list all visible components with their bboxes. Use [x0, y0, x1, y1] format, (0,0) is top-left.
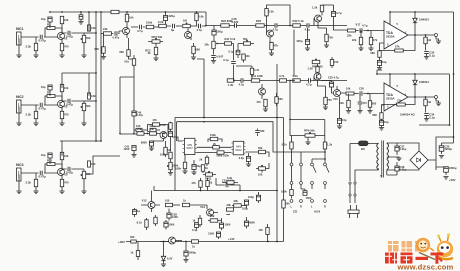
capacitor C71 1500: [303, 191, 307, 196]
svg-text:680: 680: [372, 102, 377, 106]
wire mains left: [350, 144, 378, 182]
svg-text:1.2k: 1.2k: [312, 6, 318, 10]
capacitor C6 10u: [48, 85, 52, 90]
ground input jack: [16, 123, 21, 126]
svg-text:10μ: 10μ: [161, 131, 166, 135]
ground R6: [33, 123, 38, 126]
svg-text:T: T: [380, 175, 382, 179]
ground C47: [191, 172, 196, 175]
transistor V13: [207, 209, 214, 216]
ground R25: [269, 53, 274, 56]
resistor R53 47k: [369, 37, 372, 44]
svg-text:12k: 12k: [91, 26, 96, 30]
resistor R9: [88, 93, 91, 99]
svg-text:16k: 16k: [285, 202, 290, 206]
svg-text:12k: 12k: [91, 94, 96, 98]
transistor V3: [58, 169, 65, 176]
svg-text:MIC1: MIC1: [16, 27, 24, 31]
resistor R55 1: [424, 37, 427, 44]
ground R11: [33, 191, 38, 194]
resistor R8 12k: [60, 84, 63, 91]
svg-text:50k: 50k: [86, 104, 91, 108]
capacitor C13 0.47u: [115, 31, 118, 36]
svg-text:0.047: 0.047: [216, 55, 223, 59]
capacitor C21 220u: [305, 40, 309, 45]
capacitor C30 4.7u: [360, 91, 363, 96]
resistor R43 5.1k: [293, 79, 301, 82]
svg-text:5.6k: 5.6k: [198, 15, 204, 19]
resistor R15b mix: [104, 32, 112, 35]
svg-text:22k: 22k: [347, 34, 352, 38]
svg-text:10μ: 10μ: [196, 164, 201, 168]
ground C34: [424, 119, 429, 122]
ground R52: [358, 48, 363, 51]
svg-text:10k: 10k: [129, 16, 134, 20]
input terminals AUX L/R: [311, 200, 314, 203]
wire mains right: [355, 168, 379, 181]
svg-text:R23: R23: [256, 19, 262, 23]
wire chain2 to switch: [290, 81, 292, 136]
capacitor C34 0.1u: [424, 113, 429, 116]
resistor R80 1k: [206, 181, 209, 187]
svg-text:680: 680: [372, 113, 377, 117]
resistor R51 51k: [132, 59, 135, 66]
potentiometer RP12 100k: [169, 162, 172, 169]
resistor R45 1.2k: [316, 67, 319, 73]
junction chain2: [289, 80, 291, 82]
ground R4: [59, 55, 64, 58]
capacitor C53 0.47u: [226, 183, 229, 188]
switch S1 contacts: [290, 163, 293, 166]
wire R5 to bus: [88, 12, 90, 31]
svg-text:50k: 50k: [258, 146, 263, 150]
wire bottom bus drop left: [153, 186, 155, 191]
svg-text:10k: 10k: [204, 43, 209, 47]
ground RP5: [81, 191, 86, 194]
capacitor C44 0.47u: [132, 111, 136, 116]
wire mic3 to mixer: [86, 156, 120, 174]
transistor V9: [315, 15, 322, 22]
wire signal chain 1: [206, 25, 347, 27]
svg-text:4.7k: 4.7k: [279, 74, 285, 78]
svg-text:100μ: 100μ: [242, 207, 248, 211]
capacitor C12 220u: [163, 16, 167, 21]
resistor R71 2k: [213, 146, 220, 149]
svg-text:1N4001: 1N4001: [419, 18, 429, 22]
capacitor C16 100u: [212, 30, 216, 35]
resistor R49b: [154, 217, 157, 224]
plug XP mains: [348, 205, 359, 218]
svg-text:0.47μ: 0.47μ: [39, 39, 47, 43]
ground C32b: [337, 126, 342, 129]
svg-text:4.7μ: 4.7μ: [197, 28, 203, 32]
bridge rectifier VC: [410, 151, 428, 169]
svg-text:C30: C30: [359, 87, 364, 91]
svg-text:V12: V12: [142, 199, 147, 203]
wire echo feed line B: [177, 122, 302, 152]
svg-text:560k 100k: 560k 100k: [217, 154, 230, 158]
svg-text:5600: 5600: [249, 221, 255, 225]
svg-text:12k: 12k: [91, 162, 96, 166]
svg-text:R41 100k: R41 100k: [251, 74, 263, 78]
svg-text:5.1k: 5.1k: [282, 143, 288, 147]
svg-text:1k: 1k: [209, 181, 212, 185]
svg-text:47k: 47k: [373, 38, 378, 42]
svg-text:20k: 20k: [234, 199, 239, 203]
svg-text:1.2k: 1.2k: [307, 67, 313, 71]
wire echo feed vertical: [120, 77, 137, 134]
transformer T primary: [377, 143, 379, 148]
resistor R64 27k feedback: [397, 103, 406, 106]
junction bus dots: [49, 11, 51, 13]
resistor R47b 8.1k: [145, 220, 148, 227]
resistor R41b 5.1k: [225, 42, 232, 45]
wire mixing bus vertical right: [100, 12, 102, 141]
wire echo bottom bus: [154, 190, 277, 192]
resistor R81 6.2k: [227, 181, 234, 184]
wire bottom supply rail: [126, 241, 284, 243]
capacitor C4 0.47u: [40, 103, 43, 108]
resistor R58 27k feedback: [395, 49, 404, 52]
wire long return vertical: [276, 64, 278, 242]
svg-text:1.3k: 1.3k: [228, 83, 234, 87]
svg-text:0.47μ: 0.47μ: [39, 107, 47, 111]
capacitor C7 0.47u: [40, 171, 43, 176]
capacitor C54 330p: [255, 130, 260, 133]
resistor R12 680k feedback: [47, 163, 55, 166]
svg-text:MIC3: MIC3: [16, 163, 24, 167]
wire mic2 pot out: [84, 100, 96, 102]
capacitor C47 10u: [192, 165, 196, 170]
wire echo routing: [197, 59, 204, 118]
ground C40: [149, 148, 154, 151]
zener VD4 6.2V: [161, 256, 165, 260]
diode VD1 1N4001: [413, 18, 417, 22]
capacitor C50 100u: [244, 200, 248, 205]
wire mic1 pot out: [84, 32, 96, 34]
ground RC2: [153, 58, 158, 61]
svg-text:100k: 100k: [146, 21, 153, 25]
svg-text:100k: 100k: [281, 190, 287, 194]
ground C52: [183, 260, 188, 263]
resistor R57 680 feedback lower: [378, 51, 381, 58]
wire feedback loop stage V7: [267, 5, 291, 26]
svg-text:2.2k: 2.2k: [25, 45, 31, 49]
svg-text:R: R: [324, 205, 326, 209]
ground R16: [191, 57, 196, 60]
capacitor C45 1000: [219, 223, 223, 228]
capacitor C27 4.7u: [360, 28, 363, 33]
svg-text:680: 680: [94, 47, 99, 51]
capacitor C39 1u: [133, 210, 137, 215]
svg-text:+36V: +36V: [118, 240, 125, 244]
fuse FU 2A: [359, 141, 369, 146]
capacitor C29 1000: [164, 222, 168, 227]
svg-text:4.7μ: 4.7μ: [362, 24, 368, 28]
resistor R50 750: [325, 34, 328, 41]
svg-text:2.2k: 2.2k: [158, 20, 164, 24]
svg-text:V17: V17: [356, 23, 361, 27]
svg-text:0.47μ: 0.47μ: [66, 103, 73, 107]
svg-text:100: 100: [165, 199, 170, 203]
svg-text:22k: 22k: [352, 38, 357, 42]
ground RP1: [81, 55, 86, 58]
svg-text:4.7μ: 4.7μ: [306, 83, 312, 87]
wire right rail: [419, 12, 454, 143]
resistor R25 47k: [270, 42, 273, 49]
resistor R40 47k: [199, 181, 202, 188]
resistor R78 1k: [198, 218, 201, 225]
resistor R56 2k: [205, 157, 208, 164]
svg-text:2200μ: 2200μ: [449, 166, 457, 170]
svg-text:12k: 12k: [64, 86, 69, 90]
ground RP12: [168, 173, 173, 176]
svg-text:5μ: 5μ: [171, 28, 175, 32]
svg-text:750: 750: [327, 98, 332, 102]
svg-text:RP2 50k: RP2 50k: [152, 35, 163, 39]
resistor R73 5.1k: [290, 142, 293, 149]
svg-text:0.47μ: 0.47μ: [66, 35, 73, 39]
ground RP9: [305, 142, 310, 145]
capacitor C47b 0.1u: [195, 223, 199, 228]
ground C35: [439, 156, 444, 159]
svg-text:1k: 1k: [192, 219, 195, 223]
svg-text:1k: 1k: [130, 251, 133, 255]
svg-text:AUX: AUX: [314, 210, 320, 214]
potentiometer RP3 1M: [183, 24, 191, 27]
resistor R17 10k: [125, 14, 128, 21]
junction amp2 in: [367, 93, 369, 95]
resistor R34 20k: [150, 132, 157, 135]
transistor V21 pass: [169, 237, 176, 244]
svg-text:+14V: +14V: [228, 237, 235, 241]
resistor R10 470: [60, 111, 63, 118]
capacitor C52 1000u: [184, 251, 188, 256]
wire switch columns: [292, 185, 326, 189]
svg-text:2.2μ: 2.2μ: [239, 156, 245, 160]
capacitor C8 10u: [48, 153, 52, 158]
output terminal SP2: [435, 96, 438, 99]
transistor V11: [160, 132, 167, 139]
resistor R66 50k: [259, 150, 266, 153]
capacitor C33 0.1u: [424, 51, 429, 54]
transistor V7: [267, 30, 274, 37]
resistor R42 5.1k: [293, 24, 301, 27]
resistor R14 470: [60, 179, 63, 186]
svg-text:R42 5.1k: R42 5.1k: [293, 19, 305, 23]
svg-text:4.7μ: 4.7μ: [336, 11, 342, 15]
resistor R59 10k input: [346, 92, 354, 95]
potentiometer RP1 50k: [82, 35, 85, 42]
ground R14: [59, 191, 64, 194]
svg-text:470: 470: [64, 113, 69, 117]
resistor R13 12k: [60, 152, 63, 159]
capacitor C25 4.7u: [329, 82, 333, 87]
svg-text:1500: 1500: [208, 232, 214, 236]
ground C31: [377, 68, 382, 71]
ground C17: [211, 61, 216, 64]
ground output2: [436, 103, 441, 106]
capacitor C1 0.47u: [40, 35, 43, 40]
svg-text:51k: 51k: [124, 60, 129, 64]
resistor R36 100k: [183, 162, 186, 169]
svg-text:0.47μ: 0.47μ: [39, 175, 47, 179]
resistor R70 100k: [210, 137, 218, 140]
transistor V1: [58, 33, 65, 40]
svg-text:BX: BX: [361, 147, 365, 151]
svg-text:470: 470: [362, 101, 367, 105]
resistor R82: [131, 240, 137, 243]
svg-text:470: 470: [64, 181, 69, 185]
svg-text:4.7μ: 4.7μ: [137, 29, 143, 33]
svg-text:6.2V: 6.2V: [167, 257, 173, 261]
wire V8 bias vertical: [233, 44, 235, 61]
svg-text:20k: 20k: [150, 127, 155, 131]
svg-text:50k: 50k: [243, 37, 248, 41]
svg-text:10k: 10k: [245, 54, 250, 58]
ground VD4: [161, 264, 166, 267]
svg-text:10μ: 10μ: [41, 85, 46, 89]
svg-text:1N4001: 1N4001: [419, 80, 429, 84]
connector MIC3: [17, 168, 22, 181]
svg-text:330: 330: [260, 129, 265, 133]
svg-text:10μ: 10μ: [41, 17, 46, 21]
resistor R3 12k: [60, 16, 63, 23]
capacitor C36 470p: [358, 102, 363, 105]
svg-text:300: 300: [130, 235, 135, 239]
ground RP2: [81, 123, 86, 126]
svg-text:680: 680: [195, 48, 200, 52]
capacitor C28 1000: [167, 213, 171, 218]
output terminal SP1: [435, 34, 438, 37]
junction bottom rail: [163, 241, 165, 243]
svg-text:220k: 220k: [160, 123, 166, 127]
resistor R37 470: [264, 99, 267, 106]
wire input: [21, 37, 57, 44]
capacitor C48 2.2u: [246, 157, 250, 162]
capacitor C42 2200u: [444, 167, 449, 173]
svg-text:1000: 1000: [225, 223, 231, 227]
wire echo send to switch: [290, 120, 325, 143]
svg-text:MIC2: MIC2: [16, 95, 24, 99]
svg-text:50k: 50k: [86, 36, 91, 40]
wire mixer out to IC1: [172, 137, 183, 141]
resistor R84 1k: [136, 251, 139, 257]
ground R53: [368, 48, 373, 51]
transistor V12: [148, 202, 155, 209]
input terminals CD L/R: [290, 200, 293, 203]
wire signal chain 2: [230, 80, 347, 82]
svg-text:4.7μ: 4.7μ: [273, 28, 279, 32]
resistor R41 100k: [251, 79, 259, 82]
svg-text:6.2k: 6.2k: [227, 176, 233, 180]
svg-text:0.1μ: 0.1μ: [228, 50, 234, 54]
capacitor C35 2200u: [439, 146, 444, 152]
potentiometer RP2 50k: [82, 103, 85, 110]
wire mixing bus vertical left: [95, 12, 97, 141]
wire delay line vertical: [133, 66, 135, 134]
wire input: [21, 105, 57, 112]
capacitor C32 10u: [379, 121, 383, 126]
resistor R67 680: [368, 101, 371, 108]
svg-text:50k: 50k: [86, 172, 91, 176]
svg-text:24k: 24k: [103, 27, 108, 31]
resistor R32 20k: [137, 132, 144, 135]
svg-text:470: 470: [256, 100, 261, 104]
diode VD2 1N4001: [413, 80, 417, 84]
svg-text:2030A: 2030A: [386, 35, 396, 39]
wire amp1 output: [408, 34, 435, 36]
svg-text:470: 470: [64, 45, 69, 49]
svg-text:2.2k: 2.2k: [25, 181, 31, 185]
capacitor C19 0.1u: [236, 50, 240, 54]
potentiometer RP2 50k: [152, 40, 160, 43]
svg-text:CD: CD: [293, 210, 297, 214]
switch K power: [349, 182, 351, 184]
resistor R79 20k: [227, 208, 234, 211]
wire input: [21, 173, 57, 180]
resistor R21 5.6k: [195, 13, 198, 20]
svg-text:+20V: +20V: [449, 178, 456, 182]
svg-text:150: 150: [334, 60, 339, 64]
svg-text:52k: 52k: [339, 101, 344, 105]
resistor R33 47k feedback: [153, 123, 160, 126]
svg-text:5.1k: 5.1k: [293, 74, 299, 78]
ground input jack: [16, 55, 21, 58]
potentiometer RP7 500: [312, 60, 320, 63]
capacitor C15 4.7u: [198, 24, 201, 29]
svg-text:47k: 47k: [153, 118, 158, 122]
op-amp U2 TDA2030A: [384, 83, 408, 111]
svg-text:0.47μ: 0.47μ: [113, 36, 120, 40]
svg-text:1N4004 4Ω: 1N4004 4Ω: [400, 113, 415, 117]
transistor V4: [123, 28, 130, 35]
capacitor C42b 10u: [168, 132, 172, 137]
resistor R75 100k: [290, 190, 293, 196]
capacitor C5 0.47u: [68, 99, 71, 104]
resistor R69 16k: [282, 200, 285, 208]
resistor R1 2.2k: [34, 43, 37, 50]
transistor V10b: [334, 90, 341, 97]
wire secondary center tap: [387, 157, 399, 158]
IC N3 MN3102: [231, 141, 245, 155]
resistor R23 820k: [256, 24, 264, 27]
resistor R63 680 feedback lower: [380, 113, 383, 120]
capacitor C18 0.022u: [234, 23, 237, 28]
wire V8 loop: [236, 66, 252, 68]
wire chain link vertical: [293, 30, 295, 77]
svg-text:0.1μ: 0.1μ: [223, 58, 229, 62]
resistor R65 20k: [234, 204, 242, 207]
resistor R16b on bus: [111, 10, 119, 13]
svg-text:0.47μ: 0.47μ: [66, 171, 73, 175]
capacitor C11 4.7u: [139, 25, 142, 30]
svg-text:V10: V10: [333, 97, 338, 101]
resistor R31 220k: [169, 123, 172, 130]
wire switch column links: [292, 166, 302, 182]
resistor RC3 680: [127, 50, 130, 57]
capacitor C17 0.047u: [211, 55, 216, 58]
ground C21: [305, 48, 310, 51]
capacitor C22 4.7u: [307, 23, 310, 28]
wire mic3 supply: [60, 141, 101, 156]
resistor R11 2.2k: [34, 179, 37, 186]
svg-text:100k: 100k: [210, 133, 216, 137]
capacitor C20 4.7u: [275, 23, 278, 28]
capacitor C31 10u: [377, 61, 381, 66]
svg-text:C411000: C411000: [123, 145, 129, 152]
switch S1 lower contacts: [290, 182, 293, 185]
